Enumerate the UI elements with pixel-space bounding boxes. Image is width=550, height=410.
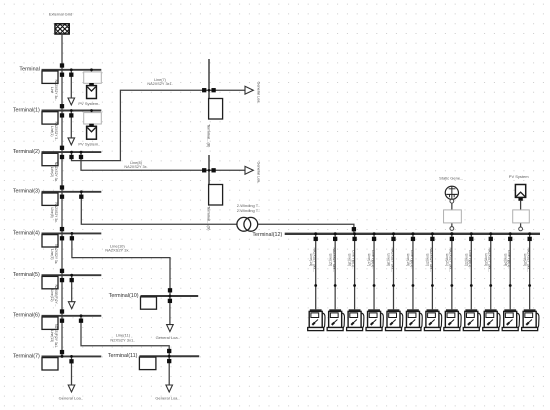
label Line(11) xyxy=(110,333,135,343)
busbar Terminal(11) xyxy=(139,355,199,357)
charging station CS10 xyxy=(483,309,500,330)
label Terminal(6) xyxy=(13,313,40,319)
svg-text:Terminal: Terminal xyxy=(19,67,39,73)
svg-text:NA2XS2Y 3x9...: NA2XS2Y 3x9... xyxy=(390,248,394,272)
wire transformer to Terminal(12) xyxy=(258,224,354,234)
label Terminal(12) xyxy=(252,232,282,238)
switch drop Line(23) xyxy=(489,237,493,241)
svg-text:N2XSE(F)2Y ..: N2XSE(F)2Y .. xyxy=(54,285,58,307)
svg-text:PV System..: PV System.. xyxy=(78,142,100,147)
label General Load(2) xyxy=(256,162,260,184)
busbar Terminal(4) xyxy=(42,232,102,234)
label Terminal(11) xyxy=(108,353,138,359)
switch Line(13) bottom xyxy=(60,350,64,354)
svg-text:Line: Line xyxy=(50,87,54,93)
label Terminal(3) xyxy=(13,189,40,195)
switch drop Line(17) xyxy=(372,237,376,241)
label Terminal(7) xyxy=(13,353,40,359)
load at Terminal(10) xyxy=(167,295,174,332)
switch drop Line(21) xyxy=(450,237,454,241)
switch Line(12) bottom xyxy=(60,309,64,313)
feeder end dot Terminal(7) xyxy=(61,355,64,358)
svg-text:Line(14): Line(14) xyxy=(309,254,313,266)
wire drop Line(15) xyxy=(334,232,337,309)
wire drop Line(23) xyxy=(489,232,492,309)
charging station CS8 xyxy=(444,309,461,330)
switch General Load(2) at Terminal(9) xyxy=(211,168,215,172)
feeder line segment Line xyxy=(61,70,63,111)
external grid label xyxy=(49,11,72,16)
switch Line bottom xyxy=(60,104,64,108)
load at Terminal(5) xyxy=(68,274,75,309)
label Line(18) xyxy=(387,248,395,272)
busbar Terminal(10) xyxy=(141,295,199,297)
svg-text:Line(2): Line(2) xyxy=(50,167,54,177)
svg-text:Line(9): Line(9) xyxy=(50,207,54,217)
svg-text:Terminal(11): Terminal(11) xyxy=(108,353,138,359)
label Terminal(5) xyxy=(13,272,40,278)
label Terminal(8) xyxy=(206,124,211,148)
svg-text:Line(22): Line(22) xyxy=(464,254,468,266)
charging station CS12 xyxy=(522,309,539,330)
switch Line(2) top xyxy=(60,155,64,159)
PV right busbar-side circle xyxy=(519,227,523,231)
svg-text:NA2XS2Y 3x9...: NA2XS2Y 3x9... xyxy=(429,248,433,272)
label Line(10) xyxy=(105,243,129,252)
svg-text:Terminal...(8): Terminal...(8) xyxy=(206,124,211,148)
svg-text:Terminal(7): Terminal(7) xyxy=(13,353,40,359)
result box Terminal(5) xyxy=(42,276,58,288)
result box Terminal(1) xyxy=(42,112,58,124)
label General Load Terminal(10) xyxy=(156,335,180,340)
svg-text:Line Typ(1)..: Line Typ(1).. xyxy=(410,250,414,269)
switch drop Line(14) xyxy=(314,237,318,241)
PV right breaker switch xyxy=(518,198,522,201)
label PV System Terminal xyxy=(78,101,100,106)
svg-text:Line(16): Line(16) xyxy=(348,254,352,266)
label Line(2) xyxy=(50,162,58,182)
static generator busbar-side circle xyxy=(450,227,454,231)
load at Terminal(1) xyxy=(68,109,75,145)
result box Static Generator xyxy=(444,210,462,223)
switch Line(1) bottom xyxy=(60,146,64,150)
svg-text:NA2XS2Y 3x9...: NA2XS2Y 3x9... xyxy=(332,248,336,272)
svg-text:External Grid: External Grid xyxy=(49,11,72,16)
label PV System Terminal(1) xyxy=(78,142,100,147)
charging station CS5 xyxy=(386,309,403,330)
result box Terminal(2) xyxy=(42,153,58,165)
charging station CS1 xyxy=(308,309,325,330)
label Line(7) xyxy=(147,78,172,86)
result box Terminal(11) xyxy=(139,357,156,370)
switch drop Line(20) xyxy=(430,237,434,241)
svg-text:PV System..: PV System.. xyxy=(78,101,100,106)
switch Line(8) at Terminal(9) xyxy=(202,168,206,172)
svg-text:General Loa..: General Loa.. xyxy=(59,395,83,400)
svg-text:Terminal(1): Terminal(1) xyxy=(13,107,40,113)
feeder line segment Line(2) xyxy=(61,152,63,192)
svg-text:NA2XS2Y 3x.: NA2XS2Y 3x. xyxy=(124,165,147,169)
label Line(16) xyxy=(348,250,356,269)
busbar Terminal(2) xyxy=(42,151,102,153)
wire drop Line(25) xyxy=(528,232,531,309)
svg-text:General Loa.: General Loa. xyxy=(256,162,260,184)
label General Load Terminal(11) xyxy=(155,396,179,401)
load at Terminal(7) xyxy=(68,355,75,392)
switch drop Line(24) xyxy=(508,237,512,241)
label 2-Winding Transformer xyxy=(237,203,260,213)
result box Terminal(3) xyxy=(42,193,58,205)
label Line(9) xyxy=(50,203,58,223)
svg-text:Terminal(2): Terminal(2) xyxy=(13,149,40,155)
switch drop Line(22) xyxy=(469,237,473,241)
terminal Terminal(8) vertical xyxy=(208,59,211,120)
static generator breaker circle xyxy=(450,199,454,203)
svg-text:General Loa..: General Loa.. xyxy=(156,335,180,340)
wire drop Line(16) xyxy=(353,232,356,309)
charging station CS2 xyxy=(327,309,344,330)
PV system symbol right xyxy=(515,185,525,198)
wire drop Line(24) xyxy=(509,232,512,309)
label Line(17) xyxy=(367,250,375,269)
result box PV right xyxy=(513,210,530,223)
switch Line(2) bottom xyxy=(60,185,64,189)
label Line(25) xyxy=(523,248,531,272)
svg-text:Line(12): Line(12) xyxy=(50,289,54,301)
result box Terminal xyxy=(42,71,58,83)
label Line(1) xyxy=(50,122,58,141)
svg-text:Terminal(3): Terminal(3) xyxy=(13,189,40,195)
wire Line(11) xyxy=(79,314,172,356)
svg-text:N2XS(F)2Y 3x1.: N2XS(F)2Y 3x1. xyxy=(54,324,58,348)
svg-text:2-Winding T..: 2-Winding T.. xyxy=(237,208,260,213)
wire drop Line(17) xyxy=(373,232,376,309)
wire drop Line(19) xyxy=(411,232,414,309)
label Line(19) xyxy=(406,250,414,269)
svg-text:Line Typ(1)..: Line Typ(1).. xyxy=(351,250,355,269)
result box Terminal(9) xyxy=(209,185,223,206)
svg-text:PV System: PV System xyxy=(509,174,529,179)
switch drop Line(15) xyxy=(333,237,337,241)
svg-text:NA2XS2Y 3x.: NA2XS2Y 3x. xyxy=(54,203,58,223)
label Line(21) xyxy=(445,248,453,272)
feeder line segment Line(13) xyxy=(61,316,63,357)
svg-text:NA2XS2Y 3x.: NA2XS2Y 3x. xyxy=(54,244,58,264)
feeder line segment Line(1) xyxy=(61,111,63,153)
feeder line segment Line(12) xyxy=(61,275,63,316)
svg-text:Line(24): Line(24) xyxy=(503,254,507,266)
label PV System right xyxy=(509,174,529,179)
label Terminal(10) xyxy=(109,293,139,299)
switch General Load(1) at Terminal(8) xyxy=(211,88,215,92)
label Line(13) xyxy=(50,324,58,348)
label Line(24) xyxy=(503,250,511,269)
label Line(23) xyxy=(484,248,492,272)
svg-text:NA2XS2Y 3..: NA2XS2Y 3.. xyxy=(54,122,58,141)
charging station CS6 xyxy=(405,309,422,330)
busbar Terminal(3) xyxy=(42,191,102,193)
svg-text:Line(21): Line(21) xyxy=(445,254,449,266)
result box Terminal(8) xyxy=(209,99,223,120)
svg-text:Terminal(6): Terminal(6) xyxy=(13,313,40,319)
svg-text:NA2XS2Y 3x.: NA2XS2Y 3x. xyxy=(105,248,129,253)
switch Line(1) top xyxy=(60,113,64,117)
busbar Terminal(6) xyxy=(42,315,102,317)
svg-text:Line(17): Line(17) xyxy=(367,254,371,266)
svg-text:Line(3): Line(3) xyxy=(50,249,54,259)
svg-text:Line Typ(1)..: Line Typ(1).. xyxy=(371,250,375,269)
svg-text:NA2XS2Y 3x9...: NA2XS2Y 3x9... xyxy=(488,248,492,272)
general load arrow at Terminal(8) xyxy=(245,86,253,94)
charging station CS7 xyxy=(424,309,441,330)
svg-text:N2XS2Y 3x1..: N2XS2Y 3x1.. xyxy=(110,338,135,343)
svg-text:Line(25): Line(25) xyxy=(523,254,527,266)
switch Line(13) top xyxy=(60,319,64,323)
PV system at Terminal xyxy=(84,68,102,98)
switch Line(3) top xyxy=(60,236,64,240)
wire static generator to busbar xyxy=(450,203,453,235)
wire Line(10) xyxy=(70,232,172,296)
svg-text:NA2XS2Y 3x9...: NA2XS2Y 3x9... xyxy=(449,248,453,272)
wire drop Line(21) xyxy=(450,232,453,309)
label General Load Terminal(7) xyxy=(59,395,83,400)
wire PV right to busbar xyxy=(520,201,522,227)
wire drop Line(22) xyxy=(470,232,473,309)
svg-text:Line(19): Line(19) xyxy=(406,254,410,266)
label Line(8) xyxy=(124,161,147,169)
svg-text:NA2XS2Y 3x9...: NA2XS2Y 3x9... xyxy=(313,248,317,272)
wire external grid to Terminal xyxy=(61,34,63,70)
svg-text:Line(13): Line(13) xyxy=(50,330,54,342)
result box Terminal(7) xyxy=(42,358,58,370)
svg-text:NA2XS2Y 3x..: NA2XS2Y 3x.. xyxy=(54,80,58,101)
switch drop Line(18) xyxy=(391,237,395,241)
PV system at Terminal(1) xyxy=(84,109,102,139)
svg-text:Line(1): Line(1) xyxy=(50,126,54,136)
wire drop Line(18) xyxy=(392,232,395,309)
svg-text:Line(18): Line(18) xyxy=(387,254,391,266)
svg-text:General Loa.: General Loa. xyxy=(256,82,260,104)
wire Line(8) xyxy=(79,151,245,171)
label General Load(1) xyxy=(256,82,260,104)
wire drop Line(20) xyxy=(431,232,434,309)
svg-text:NA2XS2Y 3x.: NA2XS2Y 3x. xyxy=(54,162,58,182)
svg-text:NA2XS2Y 3x1.: NA2XS2Y 3x1. xyxy=(147,82,172,86)
terminal Terminal(9) vertical xyxy=(208,155,211,204)
label Terminal(4) xyxy=(13,230,40,236)
external grid symbol xyxy=(46,24,80,34)
svg-text:Terminal(12): Terminal(12) xyxy=(252,232,282,238)
charging station CS9 xyxy=(463,309,480,330)
label Line xyxy=(50,80,58,101)
label Line(12) xyxy=(50,285,58,307)
switch Line(9) top xyxy=(60,195,64,199)
charging station CS3 xyxy=(347,309,364,330)
busbar Terminal(7) xyxy=(42,355,102,357)
svg-text:Static Gene...: Static Gene... xyxy=(439,176,463,181)
label Line(15) xyxy=(328,248,336,272)
wire drop Line(14) xyxy=(314,232,317,309)
busbar Terminal(5) xyxy=(42,274,102,276)
label Terminal(2) xyxy=(13,149,40,155)
transformer 2-winding xyxy=(237,217,258,231)
switch drop Line(19) xyxy=(411,237,415,241)
label Line(3) xyxy=(50,244,58,264)
result box Terminal(4) xyxy=(42,235,58,247)
svg-text:Terminal(10): Terminal(10) xyxy=(109,293,139,299)
switch Line(9) bottom xyxy=(60,227,64,231)
label Static Generator xyxy=(439,176,463,181)
feeder line segment Line(9) xyxy=(61,192,63,234)
svg-text:Line Typ(1)..: Line Typ(1).. xyxy=(468,250,472,269)
load at Terminal xyxy=(68,68,75,105)
switch Line(12) top xyxy=(60,278,64,282)
label Line(20) xyxy=(426,248,434,272)
svg-text:Line(20): Line(20) xyxy=(426,254,430,266)
switch drop Line(25) xyxy=(528,237,532,241)
svg-text:Line Typ(1)..: Line Typ(1).. xyxy=(507,250,511,269)
svg-text:Terminal(5): Terminal(5) xyxy=(13,272,40,278)
load at Terminal(11) xyxy=(166,355,173,392)
label Terminal(1) xyxy=(13,107,40,113)
svg-text:Line(23): Line(23) xyxy=(484,254,488,266)
switch Line top xyxy=(60,73,64,77)
wire Terminal(3) to transformer xyxy=(79,190,237,224)
svg-text:Terminal(4): Terminal(4) xyxy=(13,230,40,236)
label Line(14) xyxy=(309,248,317,272)
label Terminal xyxy=(19,67,39,73)
general load arrow at Terminal(9) xyxy=(245,166,253,174)
wire Line(7) xyxy=(69,90,245,160)
result box Terminal(10) xyxy=(141,297,157,309)
switch at external grid infeed xyxy=(60,63,64,67)
switch transformer LV side xyxy=(352,227,356,231)
result box Terminal(6) xyxy=(42,317,58,329)
switch drop Line(16) xyxy=(352,237,356,241)
static generator symbol xyxy=(445,186,458,199)
svg-text:NA2XS2Y 3x9...: NA2XS2Y 3x9... xyxy=(526,248,530,272)
svg-text:General Loa..: General Loa.. xyxy=(155,396,179,401)
busbar Terminal xyxy=(42,69,102,71)
switch Line(7) at Terminal(8) xyxy=(202,88,206,92)
feeder line segment Line(3) xyxy=(61,233,63,275)
switch Line(3) bottom xyxy=(60,269,64,273)
busbar Terminal(12) xyxy=(285,233,540,235)
charging station CS4 xyxy=(366,309,383,330)
label Line(22) xyxy=(464,250,472,269)
label Terminal(9) xyxy=(206,206,211,231)
svg-text:Terminal....(9): Terminal....(9) xyxy=(206,206,211,231)
charging station CS11 xyxy=(502,309,519,330)
svg-text:Line(15): Line(15) xyxy=(328,254,332,266)
busbar Terminal(1) xyxy=(42,110,102,112)
